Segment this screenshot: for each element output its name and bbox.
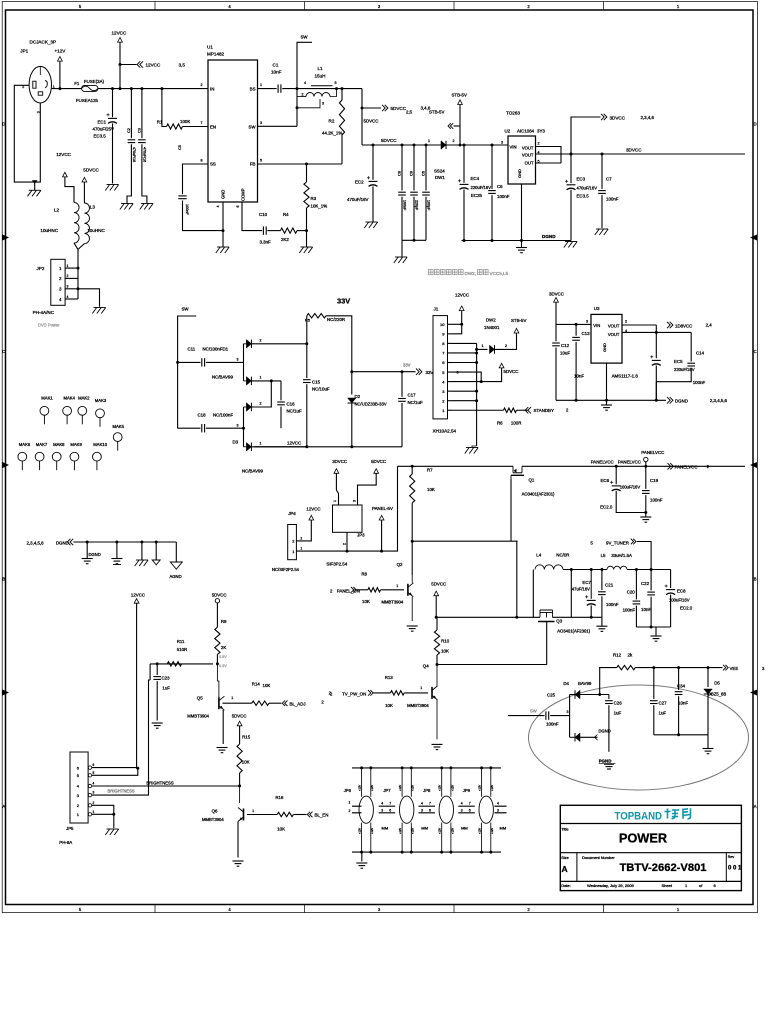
wire SW pin bbox=[258, 125, 298, 127]
svg-text:3Y3: 3Y3 bbox=[537, 129, 545, 134]
svg-text:R13: R13 bbox=[385, 675, 394, 680]
svg-text:6: 6 bbox=[469, 809, 471, 813]
ground dgnd hatch bbox=[136, 559, 148, 561]
capacitor C3 100nF bbox=[138, 139, 146, 141]
svg-text:12VCC: 12VCC bbox=[455, 293, 469, 298]
svg-text:C7: C7 bbox=[606, 177, 612, 182]
svg-text:BL_ADJ: BL_ADJ bbox=[290, 701, 306, 706]
svg-text:3: 3 bbox=[381, 809, 383, 813]
svg-text:4: 4 bbox=[421, 802, 423, 806]
capacitor C25 100nF bbox=[545, 711, 547, 719]
resistor R7 10K bbox=[410, 474, 415, 503]
svg-text:D2: D2 bbox=[355, 394, 361, 399]
resistor R8 10K bbox=[368, 588, 381, 592]
svg-text:C1: C1 bbox=[273, 63, 279, 68]
svg-text:100K: 100K bbox=[180, 119, 190, 124]
wire C23 top bbox=[156, 664, 158, 675]
junction JP9 top b bbox=[489, 766, 492, 769]
junction C8b bbox=[491, 144, 494, 147]
wire C5 bottom to gnd rail bbox=[183, 201, 224, 231]
wire J1 gnd bus bbox=[476, 343, 478, 446]
wire C18 to D3 bbox=[206, 427, 244, 429]
svg-text:10nF: 10nF bbox=[574, 374, 584, 379]
svg-text:MMBT3904: MMBT3904 bbox=[407, 703, 429, 708]
wire EC5 bottom bbox=[655, 365, 657, 400]
inductor L3 10uHNC bbox=[84, 203, 89, 244]
svg-text:100nF: 100nF bbox=[606, 197, 619, 202]
svg-text:Document Number: Document Number bbox=[582, 855, 615, 860]
junction C8 bbox=[401, 144, 404, 147]
svg-text:44.2K_1%: 44.2K_1% bbox=[322, 131, 342, 136]
resistor R5 NC/220R bbox=[307, 314, 326, 318]
svg-text:C6: C6 bbox=[422, 171, 426, 176]
inductor L4 NC/0R bbox=[535, 565, 563, 570]
svg-text:2: 2 bbox=[260, 338, 262, 342]
junction tuner gnd bbox=[650, 626, 653, 629]
junction L1 out bbox=[335, 87, 338, 90]
wire J1 12vcc bbox=[452, 324, 462, 334]
capacitor C19 100nF bbox=[642, 490, 650, 492]
svg-text:C: C bbox=[754, 349, 757, 354]
wire U3 gnd stem bbox=[606, 400, 608, 405]
svg-text:EC1: EC1 bbox=[98, 120, 107, 125]
resistor R11 510R bbox=[167, 662, 181, 666]
svg-text:10K: 10K bbox=[242, 760, 250, 765]
wire R9 bottom bbox=[216, 655, 218, 664]
svg-text:MMBT3904: MMBT3904 bbox=[187, 714, 209, 719]
net chevron PANEL_ON bbox=[351, 587, 356, 593]
svg-text:220pF: 220pF bbox=[415, 200, 419, 211]
junction JP8 top a bbox=[440, 766, 443, 769]
wire R11 row bbox=[150, 663, 213, 665]
svg-text:BRIGHTNESS: BRIGHTNESS bbox=[108, 789, 135, 794]
capacitor C8 100nF bbox=[398, 191, 406, 193]
svg-text:3.3nF: 3.3nF bbox=[260, 240, 272, 245]
wire Q6 emitter bbox=[237, 822, 239, 858]
wire C25 to D4 bbox=[550, 715, 570, 717]
svg-text:A: A bbox=[754, 804, 757, 809]
junction C23 bbox=[156, 662, 159, 665]
svg-text:2: 2 bbox=[343, 543, 347, 545]
svg-text:DCJACK_3P: DCJACK_3P bbox=[30, 40, 57, 45]
svg-text:MAK3: MAK3 bbox=[95, 398, 107, 403]
svg-text:NC/0R: NC/0R bbox=[556, 553, 569, 558]
svg-text:JP4: JP4 bbox=[288, 511, 296, 516]
wire dgnd drop b bbox=[116, 542, 118, 559]
wire JP5 pin6 bbox=[92, 767, 138, 770]
svg-text:BRIGHTNESS: BRIGHTNESS bbox=[146, 780, 173, 785]
capacitor C12 10uF bbox=[552, 342, 560, 344]
wire C12 branch bbox=[555, 324, 557, 341]
svg-text:C2: C2 bbox=[127, 128, 131, 133]
JP5 pin1 pad bbox=[88, 813, 91, 816]
svg-text:PANEL-5V: PANEL-5V bbox=[372, 506, 393, 511]
capacitor C1 10nF bbox=[277, 84, 279, 92]
svg-text:GND: GND bbox=[221, 190, 226, 199]
ic U1 MP1482 bbox=[208, 60, 258, 202]
junction C19 bottom bbox=[644, 511, 647, 514]
capacitor C15 NC/10uF bbox=[303, 379, 311, 381]
svg-text:R8: R8 bbox=[361, 572, 367, 577]
wire motor top rail bbox=[352, 767, 501, 769]
svg-text:6: 6 bbox=[389, 809, 391, 813]
wire 12VCC chevron stub bbox=[120, 64, 137, 66]
junction J1 pin10 bbox=[460, 323, 463, 326]
capacitor C10 3.3nF bbox=[262, 226, 264, 234]
svg-text:U3: U3 bbox=[594, 306, 600, 311]
junction EC7 rail bbox=[590, 616, 593, 619]
connector JP2 PH-4A/NC bbox=[51, 259, 65, 305]
motor pin bars bbox=[495, 805, 507, 807]
wire C19 bottom bbox=[645, 495, 647, 517]
svg-text:+12V: +12V bbox=[438, 828, 442, 834]
svg-text:6: 6 bbox=[457, 370, 459, 374]
junction JP6 top b bbox=[369, 766, 372, 769]
wire L2 L3 merge bbox=[74, 243, 78, 299]
ground U1 bbox=[217, 246, 229, 248]
wire EC3 top bbox=[570, 154, 572, 183]
svg-text:PGND: PGND bbox=[599, 759, 612, 764]
svg-text:C6: C6 bbox=[497, 184, 503, 189]
wire C22 top bbox=[650, 570, 652, 591]
svg-text:2: 2 bbox=[538, 142, 540, 146]
junction JP2 pin3 bbox=[77, 287, 80, 290]
wire EC8 top bbox=[670, 570, 672, 589]
transistor Q2 MMBT3904 bbox=[407, 584, 409, 596]
junction 12VCC rail bbox=[119, 87, 122, 90]
wire R6 to chevron bbox=[517, 409, 528, 411]
ground AGND triangle bbox=[170, 562, 182, 569]
connector JP1 DCJACK_3P bbox=[29, 66, 51, 103]
junction EC2 bbox=[372, 144, 375, 147]
wire J1 pin2 bbox=[452, 400, 477, 402]
wire JP4 pin1 rail bbox=[296, 466, 397, 551]
svg-text:R12: R12 bbox=[613, 653, 622, 658]
wire R2 bottom bbox=[341, 135, 343, 164]
svg-text:VOUT: VOUT bbox=[522, 153, 534, 158]
wire D1b out bbox=[251, 380, 281, 382]
wire C3 bottom bbox=[142, 144, 147, 203]
svg-text:MAK7: MAK7 bbox=[36, 442, 48, 447]
svg-text:2: 2 bbox=[300, 536, 302, 540]
svg-text:PH-8A: PH-8A bbox=[59, 840, 72, 845]
wire U3 dgnd rail bbox=[556, 399, 666, 401]
svg-text:FUSEA125: FUSEA125 bbox=[76, 98, 99, 103]
junction JP9 bot b bbox=[489, 851, 492, 854]
svg-text:Q3: Q3 bbox=[556, 619, 562, 624]
power 12VCC arrow JP4 bbox=[309, 515, 314, 520]
svg-text:2k: 2k bbox=[628, 653, 633, 658]
diode D2 NC/UDZ33B-33V bbox=[348, 398, 357, 403]
wire C17 top bbox=[401, 372, 403, 397]
title block frame bbox=[560, 805, 741, 890]
svg-text:AO3401(AF2301): AO3401(AF2301) bbox=[522, 492, 555, 497]
svg-text:NC/100nFD1: NC/100nFD1 bbox=[203, 347, 229, 352]
svg-text:33uH/1.5A: 33uH/1.5A bbox=[611, 553, 632, 558]
svg-text:0.5V: 0.5V bbox=[219, 655, 227, 659]
wire chevron to R13 bbox=[374, 692, 391, 694]
connector JP4 NC/SIF2P2.54 bbox=[288, 525, 297, 560]
wire JP4 pin2 12vcc bbox=[296, 520, 311, 541]
svg-text:1uF: 1uF bbox=[162, 686, 170, 691]
wire DGND row rail bbox=[73, 541, 176, 543]
wire vee gnd rail bbox=[654, 734, 708, 736]
svg-text:2,4: 2,4 bbox=[706, 323, 713, 328]
svg-text:R14: R14 bbox=[252, 682, 261, 687]
svg-text:4: 4 bbox=[461, 802, 463, 806]
svg-text:+12V: +12V bbox=[450, 828, 454, 834]
svg-text:MM: MM bbox=[421, 826, 428, 831]
svg-text:EC25: EC25 bbox=[471, 193, 483, 198]
wire JP5 pin3 brightness bbox=[92, 680, 150, 795]
svg-text:EN: EN bbox=[210, 124, 216, 129]
svg-text:C8: C8 bbox=[398, 171, 402, 176]
svg-text:15uH: 15uH bbox=[315, 74, 326, 79]
wire JP3 pin2 to rail bbox=[346, 532, 348, 551]
wire U3 gnd pin bbox=[606, 363, 608, 400]
svg-text:R3: R3 bbox=[311, 196, 317, 201]
svg-text:10K: 10K bbox=[277, 827, 285, 832]
wire R13 to Q4 base bbox=[404, 692, 428, 694]
svg-text:DGND: DGND bbox=[542, 234, 556, 239]
junction PANEL5V rail bbox=[380, 550, 383, 553]
testpoint MAK1 bbox=[40, 406, 49, 415]
diode D4b BAV99 bbox=[575, 733, 580, 742]
svg-text:4: 4 bbox=[381, 802, 383, 806]
svg-text:R11: R11 bbox=[177, 639, 185, 644]
ground Q4 bbox=[432, 743, 443, 745]
wire 33V chevron stub bbox=[352, 371, 416, 373]
wire C11 to D1 bbox=[206, 361, 244, 363]
svg-text:NC/UDZ33B-33V: NC/UDZ33B-33V bbox=[355, 402, 387, 407]
capacitor EC7 47uF/16V bbox=[590, 570, 592, 599]
wire J1 pin3 stub bbox=[448, 390, 453, 392]
svg-text:DVD Power: DVD Power bbox=[38, 323, 60, 328]
svg-text:+12V: +12V bbox=[438, 785, 442, 791]
junction Q5 collector bbox=[216, 662, 219, 665]
capacitor C18 NC/100nF bbox=[201, 424, 203, 432]
wire EC4 bottom bbox=[463, 189, 465, 240]
wire U2 out pin4 bbox=[536, 153, 562, 155]
svg-text:12VCC: 12VCC bbox=[112, 31, 127, 36]
svg-text:F1: F1 bbox=[74, 81, 80, 86]
svg-text:FB: FB bbox=[250, 162, 256, 167]
junction U3 out bbox=[655, 331, 658, 334]
wire C15 top bbox=[306, 344, 308, 378]
svg-text:5DVCC: 5DVCC bbox=[504, 369, 519, 374]
svg-text:OUT: OUT bbox=[525, 161, 534, 166]
wire C14 top bbox=[690, 332, 692, 361]
svg-text:C20: C20 bbox=[627, 590, 636, 595]
ground JP5 bbox=[107, 828, 119, 830]
svg-text:1: 1 bbox=[260, 441, 262, 445]
wire C22 bottom bbox=[650, 597, 652, 627]
wire Q3 drain rail bbox=[553, 616, 602, 618]
wire Q2 collector bbox=[411, 541, 413, 575]
svg-text:+12V: +12V bbox=[490, 785, 494, 791]
capacitor EC4 220uF/16V bbox=[460, 183, 469, 185]
wire R5 left bbox=[306, 316, 308, 344]
wire c8 gnd stem bbox=[401, 240, 403, 256]
wire DW1 out bbox=[446, 144, 508, 146]
svg-text:AIC1084: AIC1084 bbox=[517, 129, 535, 134]
power 5DVCC circle Q5 bbox=[215, 599, 219, 603]
junction FB R3 bbox=[305, 163, 308, 166]
transistor Q6 MMBT3904 mirrored bbox=[243, 809, 245, 821]
wire C21 top bbox=[601, 570, 603, 591]
svg-text:C3: C3 bbox=[138, 128, 142, 133]
capacitor C2 100nF bbox=[128, 139, 136, 141]
svg-text:STB-5V: STB-5V bbox=[429, 110, 444, 115]
wire C8 top bbox=[401, 145, 403, 191]
wire C27 top bbox=[653, 668, 655, 699]
capacitor C5 100nF bbox=[178, 195, 186, 197]
net chevron 12VCC bbox=[137, 61, 143, 67]
wire R10 top bbox=[436, 617, 438, 630]
junction EC7 node bbox=[570, 568, 573, 571]
svg-text:R15: R15 bbox=[242, 735, 251, 740]
svg-text:EC3.5: EC3.5 bbox=[577, 194, 590, 199]
svg-text:PANEL_ON: PANEL_ON bbox=[337, 588, 360, 593]
ground dgnd bar2 bbox=[111, 558, 122, 560]
svg-text:NC/220R: NC/220R bbox=[327, 317, 345, 322]
svg-text:100uF/16V: 100uF/16V bbox=[620, 484, 641, 489]
wire C23 bottom bbox=[156, 681, 158, 720]
power 12VCC arrow J1 bbox=[459, 306, 464, 311]
svg-text:10nF: 10nF bbox=[271, 70, 282, 75]
svg-text:5DVCC: 5DVCC bbox=[391, 106, 407, 111]
wire C8b bottom bbox=[491, 195, 493, 240]
svg-text:B: B bbox=[2, 577, 5, 582]
wire Q3 gate drop bbox=[546, 622, 548, 665]
power STB-5V arrow bbox=[458, 100, 463, 105]
svg-text:C: C bbox=[2, 349, 5, 354]
svg-text:10K: 10K bbox=[362, 599, 370, 604]
resistor R3 10K_1% bbox=[304, 182, 309, 208]
svg-text:2: 2 bbox=[93, 801, 95, 805]
svg-text:Q5: Q5 bbox=[197, 696, 203, 701]
svg-text:47uF/16V: 47uF/16V bbox=[572, 587, 590, 592]
svg-text:DGND: DGND bbox=[89, 552, 101, 557]
svg-text:MAK8: MAK8 bbox=[53, 442, 65, 447]
wire SW feed bbox=[178, 316, 197, 428]
wire JP2 pin3 bbox=[65, 288, 78, 290]
junction J1 bus pin6 bbox=[475, 361, 478, 364]
power +12V arrow bbox=[58, 57, 63, 62]
wire jack pin1 to fuse bbox=[52, 88, 82, 90]
power 5DVCC arrow L3 bbox=[82, 177, 87, 182]
wire C10 to R4 bbox=[267, 230, 280, 232]
svg-text:DW2,: DW2, bbox=[465, 271, 476, 276]
svg-text:5: 5 bbox=[260, 159, 262, 163]
svg-text:DGND: DGND bbox=[56, 541, 69, 546]
wire C16 top bbox=[280, 381, 282, 400]
transistor Q3 AO3401(AF2301) bbox=[540, 612, 547, 614]
svg-text:1: 1 bbox=[396, 584, 398, 588]
svg-text:3: 3 bbox=[237, 358, 239, 362]
ground Q2 bbox=[407, 625, 418, 627]
svg-text:STB-5V: STB-5V bbox=[452, 93, 467, 98]
JP5 pin4 pad bbox=[88, 784, 91, 787]
ground EC3 dgnd bbox=[565, 241, 577, 243]
junction JP6 top a bbox=[360, 766, 363, 769]
junction C6 bbox=[425, 144, 428, 147]
wire Q5 base to R14 bbox=[223, 702, 252, 704]
wire J1 pin8 bbox=[452, 342, 477, 344]
svg-text:VEE: VEE bbox=[730, 666, 739, 671]
motor JP9 bbox=[479, 796, 493, 823]
wire U2 gnd pin bbox=[521, 184, 523, 248]
svg-text:100uF/16V: 100uF/16V bbox=[669, 598, 690, 603]
svg-text:5DVCC: 5DVCC bbox=[232, 714, 247, 719]
svg-text:C18: C18 bbox=[198, 413, 207, 418]
svg-text:2,5: 2,5 bbox=[406, 110, 413, 115]
junction jack +12V bbox=[58, 87, 61, 90]
junction C9 bbox=[413, 144, 416, 147]
wire J1 pin7 stub bbox=[448, 352, 453, 354]
svg-text:MAK10: MAK10 bbox=[93, 442, 107, 447]
wire R10 bottom bbox=[436, 655, 438, 665]
junction JP8 bot a bbox=[440, 851, 443, 854]
wire D3 bus bbox=[243, 407, 245, 447]
wire Q5 emitter bbox=[222, 710, 224, 744]
svg-text:R16: R16 bbox=[275, 795, 284, 800]
svg-text:1: 1 bbox=[349, 801, 351, 805]
junction C3 rail bbox=[140, 87, 143, 90]
diode DW1 SS24 bbox=[441, 141, 446, 150]
svg-text:C26: C26 bbox=[614, 701, 623, 706]
motor pin bars bbox=[458, 805, 475, 807]
svg-text:1: 1 bbox=[428, 139, 430, 143]
svg-text:5DVCC: 5DVCC bbox=[212, 593, 227, 598]
testpoint MAK6 bbox=[18, 452, 27, 461]
junction D5 top bbox=[707, 666, 710, 669]
connector JP5 PH-8A bbox=[70, 752, 88, 823]
net chevron DGND U3 bbox=[667, 397, 673, 403]
diode D4a BAV99 bbox=[575, 690, 580, 699]
svg-text:POWER: POWER bbox=[619, 831, 667, 846]
junction 5dvcc r10 bbox=[435, 616, 438, 619]
wire R3 bottom bbox=[306, 208, 308, 231]
ground jack AC return bbox=[29, 189, 41, 191]
svg-text:470uF/16V: 470uF/16V bbox=[347, 197, 369, 202]
svg-text:3: 3 bbox=[237, 423, 239, 427]
wire dgnd drop d bbox=[155, 542, 157, 560]
junction J1 bus pin2 bbox=[475, 399, 478, 402]
svg-text:100nF: 100nF bbox=[606, 602, 619, 607]
wire J1 pin8 stub bbox=[448, 342, 453, 344]
wire D3b out bbox=[251, 446, 306, 448]
inductor L5 33uH bbox=[607, 566, 627, 569]
wire Q1 gate rail bbox=[412, 540, 517, 542]
net chevron STANDBY bbox=[525, 407, 531, 413]
transistor Q4 MMBT3904 bbox=[431, 687, 433, 699]
svg-text:Q1: Q1 bbox=[529, 478, 535, 483]
svg-text:MMBT3904: MMBT3904 bbox=[202, 817, 224, 822]
svg-text:C5: C5 bbox=[178, 145, 182, 150]
wire C2 bottom bbox=[127, 144, 131, 203]
svg-text:C22: C22 bbox=[641, 581, 650, 586]
net chevron DGND row bbox=[67, 539, 73, 545]
svg-text:3: 3 bbox=[353, 500, 357, 502]
testpoint MAK5 bbox=[113, 433, 122, 442]
ground C7 bbox=[596, 228, 608, 230]
svg-text:NC/BAV99: NC/BAV99 bbox=[212, 375, 233, 380]
wire J1 pin4 stub bbox=[448, 381, 453, 383]
svg-text:+12V: +12V bbox=[357, 828, 361, 834]
junction J1 bus pin3 bbox=[475, 390, 478, 393]
wire 3DVCC to JP3 pin1 bbox=[336, 473, 338, 505]
